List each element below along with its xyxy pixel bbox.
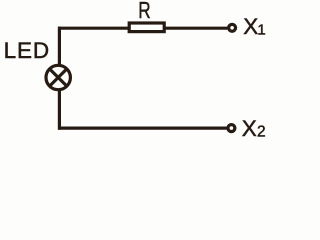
terminal X2 (open circle) — [228, 125, 235, 132]
svg-text:X2: X2 — [242, 116, 266, 141]
svg-text:LED: LED — [4, 38, 50, 63]
resistor R — [129, 23, 164, 32]
wire: bottom horizontal to terminal X2 — [58, 127, 227, 130]
svg-text:X1: X1 — [243, 14, 265, 39]
wire: left vertical through lamp — [58, 27, 61, 130]
svg-text:R: R — [138, 0, 150, 23]
wire: top horizontal from corner to terminal X1 — [58, 27, 227, 30]
lamp LED (circle with X) — [46, 65, 70, 89]
terminal X1 (open circle) — [229, 24, 236, 31]
